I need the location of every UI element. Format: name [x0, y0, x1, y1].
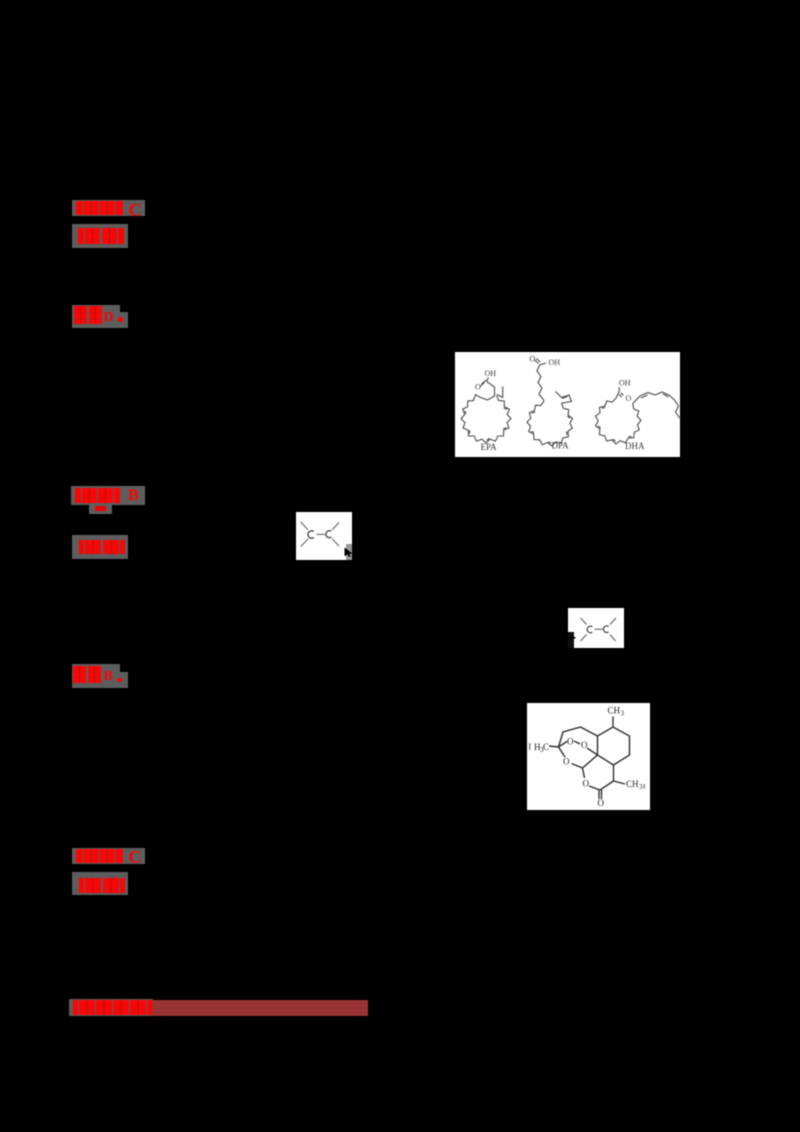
svg-text:CH: CH: [608, 706, 621, 716]
svg-text:3: 3: [639, 783, 643, 791]
svg-text:O: O: [626, 394, 632, 403]
svg-text:OH: OH: [485, 369, 497, 378]
svg-text:EPA: EPA: [481, 442, 498, 452]
svg-text:O: O: [598, 798, 605, 808]
svg-text:O: O: [581, 740, 588, 750]
svg-text:O: O: [475, 382, 481, 391]
svg-text:O: O: [563, 757, 570, 767]
svg-text:OH: OH: [549, 358, 561, 367]
svg-text:CH: CH: [626, 779, 639, 789]
svg-text:3: 3: [621, 710, 625, 718]
svg-text:DPA: DPA: [552, 440, 570, 450]
svg-text:O: O: [530, 354, 536, 363]
svg-text:O: O: [567, 737, 574, 747]
svg-text:C: C: [543, 742, 549, 752]
svg-text:O: O: [583, 779, 590, 789]
svg-text:OH: OH: [619, 378, 631, 387]
svg-text:DHA: DHA: [625, 441, 645, 451]
